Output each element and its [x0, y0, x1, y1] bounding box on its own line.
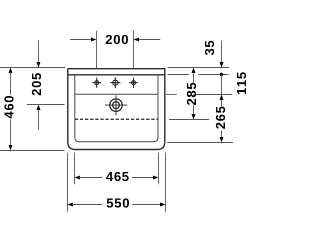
svg-text:205: 205: [29, 73, 44, 96]
overflow hole: [105, 96, 127, 116]
dim 550 extension lines: [68, 153, 166, 212]
dim 465 line + arrows: [75, 176, 159, 180]
right dashed ext line: [169, 119, 209, 121]
dim 35/115 dot: [220, 73, 223, 76]
dim 460 extension lines: [0, 68, 65, 151]
svg-text:115: 115: [234, 72, 247, 95]
tap hole middle: [110, 77, 120, 88]
dim 285 line + arrows: [192, 68, 196, 120]
deck line: [75, 93, 158, 95]
right deck ext line: [166, 94, 232, 96]
dashed line: [75, 118, 158, 120]
dim 205 ext line: [27, 104, 65, 106]
basin outer contour: [68, 68, 165, 149]
right ext line rim top: [168, 67, 230, 69]
dim 115 connector: [221, 75, 223, 95]
dim 550 line + arrows: [68, 203, 166, 207]
dim 465 extension lines: [75, 153, 159, 185]
dim 265 line + arrows: [220, 95, 224, 143]
svg-text:35: 35: [202, 40, 217, 55]
dim 35 line + arrow: [220, 41, 224, 68]
rim bottom line: [68, 74, 165, 76]
right inner-bottom ext line: [167, 142, 233, 144]
svg-text:465: 465: [106, 169, 129, 184]
dim 200 extension lines: [97, 31, 134, 69]
svg-text:460: 460: [1, 95, 16, 118]
tap hole right: [129, 78, 138, 88]
dim 200 line + arrows: [70, 38, 160, 42]
svg-text:550: 550: [106, 196, 129, 211]
tap hole left: [92, 78, 101, 88]
right dot line: [168, 74, 229, 76]
svg-text:285: 285: [184, 82, 199, 105]
svg-text:265: 265: [213, 106, 228, 129]
dim 460 line + arrows: [9, 68, 13, 151]
basin inner contour: [75, 75, 158, 142]
svg-text:200: 200: [105, 32, 128, 47]
dim 205 line + arrows: [37, 40, 41, 130]
